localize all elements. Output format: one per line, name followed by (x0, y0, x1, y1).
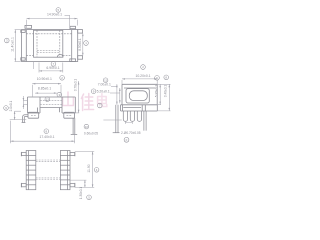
view5 pins (113, 105, 146, 133)
view1 dim left 11.40 (15, 30, 21, 62)
svg-text:10.20±0.1: 10.20±0.1 (135, 74, 150, 78)
view5 dim right 5.95 (150, 84, 171, 104)
view2 left pin (22, 115, 28, 123)
view5 dim left 5.20 (110, 88, 121, 103)
svg-text:0.60±0.05: 0.60±0.05 (84, 132, 98, 136)
view2 dim right 3.70 (72, 81, 79, 113)
svg-text:6.90±0.1: 6.90±0.1 (46, 66, 59, 70)
view3 hidden lines (36, 160, 61, 180)
view2 dim tube wall (23, 96, 28, 109)
view5 dim right 3.40 (150, 84, 171, 111)
svg-text:8.85±0.1: 8.85±0.1 (38, 86, 51, 90)
view5 pin note (121, 131, 141, 142)
view1 dim top 14.90 (27, 15, 78, 29)
view2 dim right 0.60 (84, 124, 98, 135)
view2 dim left 2.00 (14, 111, 21, 120)
svg-text:14.90±0.1: 14.90±0.1 (47, 12, 62, 16)
view5 dim left 7.00 (111, 84, 118, 104)
svg-text:2.0±0.1: 2.0±0.1 (9, 100, 13, 111)
view1 outline (21, 25, 78, 61)
svg-text:10.90±0.1: 10.90±0.1 (37, 77, 52, 81)
svg-text:11.40±0.1: 11.40±0.1 (11, 37, 15, 52)
view1 hidden lines (26, 30, 71, 57)
svg-text:10: 10 (85, 125, 89, 129)
view2 seat line (10, 119, 27, 121)
view5 circle 7 (98, 103, 103, 108)
view3 dim 11.90 (75, 152, 94, 188)
view1 dim right 8.50 (82, 33, 84, 56)
view2 dim 10.90 (32, 83, 61, 97)
view2 dim bottom 17.40 (10, 121, 74, 144)
view5 seat line (103, 119, 121, 121)
svg-text:13: 13 (46, 97, 50, 101)
view2 outline (28, 97, 76, 118)
view1 center block (34, 30, 64, 57)
watermark (63, 92, 107, 111)
svg-text:F: F (126, 138, 128, 142)
view1 right tabs and pins (78, 30, 83, 60)
svg-text:11: 11 (104, 78, 107, 82)
svg-text:11.90: 11.90 (87, 164, 91, 172)
view2 dim 8.85 (35, 92, 57, 94)
view5 dim top 10.20 (122, 78, 157, 84)
svg-text:2-Ø0.70±0.05: 2-Ø0.70±0.05 (121, 131, 141, 135)
view3 right comb (60, 151, 75, 190)
svg-text:5.95±0.1: 5.95±0.1 (154, 85, 158, 98)
svg-text:3.70±0.1: 3.70±0.1 (74, 79, 78, 92)
view2 hidden lines (31, 101, 72, 116)
svg-text:7.00±0.1: 7.00±0.1 (98, 83, 111, 87)
view5 outline (121, 84, 158, 111)
view1 dim bottom 6.90 (34, 62, 63, 73)
svg-text:17.40±0.1: 17.40±0.1 (39, 135, 54, 139)
svg-text:5.20±0.1: 5.20±0.1 (97, 90, 110, 94)
svg-text:1.30±0.1: 1.30±0.1 (79, 187, 83, 200)
view5 pin pitch marks (125, 121, 132, 124)
view3 left comb (21, 151, 36, 190)
svg-text:8.50±0.1: 8.50±0.1 (78, 38, 82, 51)
svg-text:3.40±0.1: 3.40±0.1 (163, 85, 167, 98)
view3 dim 2.30 (70, 180, 86, 187)
view2 right pin (71, 118, 78, 134)
